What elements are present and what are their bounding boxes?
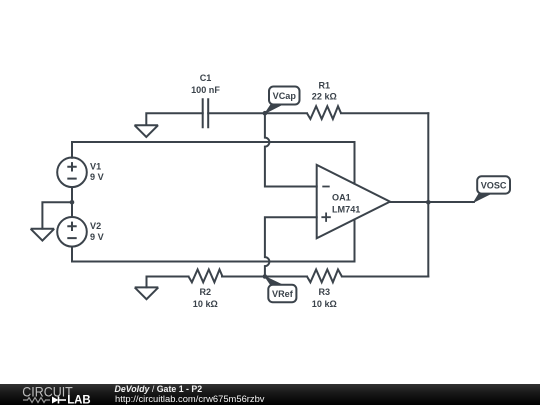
capacitor C1	[203, 98, 209, 128]
svg-text:22 kΩ: 22 kΩ	[312, 92, 337, 102]
resistor R1	[307, 106, 341, 119]
op-amp OA1	[317, 165, 390, 238]
junction node V1/V2 midpoint	[70, 200, 75, 205]
svg-text:9 V: 9 V	[90, 172, 104, 182]
svg-text:LAB: LAB	[67, 392, 91, 405]
wire R3 right to feedback corner	[342, 276, 428, 278]
op-amp non-inverting input mark	[321, 213, 330, 222]
svg-text:10 kΩ: 10 kΩ	[193, 299, 218, 309]
wire V1 to V2	[71, 187, 73, 217]
wire R1 right to feedback corner	[341, 112, 428, 114]
resistor R2	[189, 270, 223, 283]
voltage source V1	[57, 158, 87, 188]
svg-text:V2: V2	[90, 221, 101, 231]
svg-text:9 V: 9 V	[90, 232, 104, 242]
ground near R2	[135, 287, 159, 299]
wire VCap node down to inverting input (with hop)	[265, 113, 317, 186]
svg-text:VRef: VRef	[272, 289, 294, 299]
wire R2 to VRef node to R3	[222, 276, 307, 278]
node flag VCap	[265, 87, 299, 114]
svg-text:R3: R3	[318, 287, 330, 297]
svg-text:VOSC: VOSC	[481, 181, 507, 191]
svg-text:VCap: VCap	[273, 91, 297, 101]
node flag VRef	[265, 277, 297, 303]
wire ground branch from V1/V2 midpoint	[42, 202, 72, 228]
svg-text:V1: V1	[90, 161, 101, 171]
voltage source V2	[57, 217, 87, 247]
junction node VRef	[263, 274, 268, 279]
junction node output/feedback	[426, 200, 431, 205]
svg-text:C1: C1	[200, 73, 212, 83]
svg-text:http://circuitlab.com/crw675m5: http://circuitlab.com/crw675m56rzbv	[115, 394, 265, 404]
ground near V2	[31, 229, 55, 241]
footer bar	[0, 384, 540, 405]
wire VRef node up to non-inverting input (with hop)	[265, 217, 317, 276]
svg-text:10 kΩ: 10 kΩ	[312, 299, 337, 309]
resistor R3	[307, 270, 342, 283]
op-amp inverting input mark	[322, 186, 329, 188]
wire feedback vertical	[427, 113, 429, 276]
svg-text:R1: R1	[318, 81, 330, 91]
svg-text:OA1: OA1	[332, 192, 351, 202]
node flag VOSC	[474, 176, 510, 202]
wire R2 ground to R2	[147, 277, 189, 288]
wire V1 top to op-amp V+ pin	[72, 142, 355, 184]
svg-text:CIRCUIT: CIRCUIT	[22, 383, 73, 399]
wire op-amp output to VOSC	[390, 201, 474, 203]
junction node VCap	[263, 111, 268, 116]
wire C1 right plate to R1	[208, 112, 307, 114]
svg-text:DeVoldy / Gate 1 - P2: DeVoldy / Gate 1 - P2	[115, 384, 203, 394]
wire V2 bottom to op-amp V- pin	[72, 220, 355, 262]
svg-text:100 nF: 100 nF	[191, 85, 220, 95]
ground near C1	[135, 125, 159, 137]
svg-text:LM741: LM741	[332, 204, 360, 214]
wire C1 left plate to ground	[146, 113, 202, 125]
svg-text:R2: R2	[199, 287, 211, 297]
CircuitLab logo resistor-diode glyph	[23, 398, 50, 403]
